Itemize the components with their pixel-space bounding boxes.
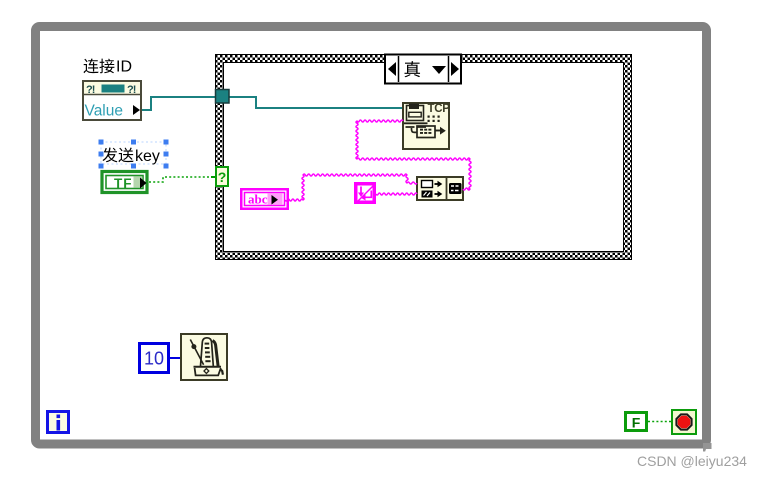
svg-text:?: ? [218,169,227,185]
svg-text:Value: Value [85,103,124,120]
boolean terminal TF [102,172,147,193]
svg-text:TCP: TCP [428,103,451,115]
dotted wire TF to case selector [149,177,211,182]
svg-text:key: key [135,148,160,165]
string constant abc [240,188,289,210]
connection refnum terminal Value [83,81,141,120]
svg-text:ID: ID [116,59,132,76]
wire EOL to concatenate [376,193,417,195]
wait until next ms multiple [181,334,227,380]
concatenate strings function [417,177,463,200]
case structure border [215,54,632,260]
stop button [672,410,696,434]
label 发送key [102,147,159,165]
label 发送key selection handles [101,142,166,164]
tunnel [216,90,230,104]
svg-text:F: F [632,415,641,431]
case selector terminal ? [211,167,228,186]
end of line constant [354,182,376,204]
while loop border [36,27,707,445]
iteration terminal i [48,412,69,433]
loop condition constant F [626,413,647,431]
while loop corner step [703,443,712,452]
svg-text:?!: ?! [127,84,136,96]
svg-text:abc: abc [248,192,268,207]
svg-text:CSDN @leiyu234: CSDN @leiyu234 [637,453,747,469]
wire concatenate to TCP [356,120,471,190]
wire 10 to wait [170,357,181,359]
label 连接ID [83,59,132,76]
TCP write function [403,103,450,149]
numeric constant 10 [140,344,169,373]
svg-text:10: 10 [144,349,164,369]
svg-text:TF: TF [114,176,133,191]
svg-text:?!: ?! [86,84,95,96]
wire abc to concatenate [285,174,417,201]
case selector label 真 [385,55,461,84]
teal wire Value to TCP [142,97,402,110]
dotted wire F to stop button [648,421,672,423]
